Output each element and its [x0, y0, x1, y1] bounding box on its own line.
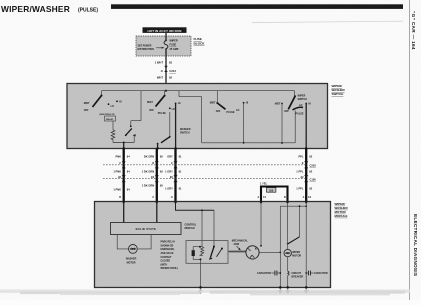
- scan noise overlay: [0, 0, 1, 1]
- labels wire colors row 3: [113, 184, 312, 192]
- wire from header into fuse: [165, 33, 167, 41]
- wiper motor M2: [284, 244, 301, 258]
- washer motor M1: [117, 235, 151, 265]
- wire PNK 94 harness run: [123, 149, 125, 203]
- label FUSE BLOCK: [194, 37, 206, 45]
- switch pole D wiper switch: [275, 91, 311, 116]
- header HOT IN ACCY OR RUN: [143, 27, 187, 33]
- fuse block box (dashed): [136, 36, 191, 56]
- wire exit PNK inside box: [123, 143, 125, 149]
- label WIPER/WASHER SWITCH: [332, 84, 346, 96]
- wire DK GRN inside box: [157, 144, 159, 149]
- mechanical arm linkage: [228, 250, 246, 252]
- wire DK GRN 95 harness run: [156, 149, 158, 203]
- yel jumper leg to motor: [287, 202, 289, 243]
- wire DK GRN into solid state: [156, 202, 158, 222]
- top black bar: [111, 4, 403, 9]
- delay label and box: [100, 114, 116, 121]
- ground G1: [198, 286, 202, 293]
- washer switch: [157, 112, 191, 145]
- connector pins at C203: [120, 161, 309, 168]
- labels wire colors row 1: [116, 154, 313, 158]
- pole D interconnects: [281, 104, 295, 144]
- right margin rule: [409, 0, 411, 300]
- park contact switch of pole A: [125, 91, 141, 143]
- dashed connector row C100: [103, 178, 316, 182]
- capacitor left: [257, 271, 281, 276]
- top interconnect in module: [280, 205, 307, 287]
- label SEE POWER DISTRIBUTION: [138, 45, 165, 51]
- capacitor right: [305, 271, 328, 276]
- ground G2: [278, 286, 282, 293]
- cam to capacitor node wire: [259, 252, 281, 254]
- fuse WIPER FUSE 25 AMP: [164, 40, 179, 51]
- delay resistor: [111, 121, 115, 143]
- feed junction node: [165, 90, 167, 92]
- park switch arm above motor: [287, 237, 300, 245]
- wiper/washer motor module box: [95, 202, 331, 288]
- labels wire colors row 2: [113, 170, 312, 174]
- label WIPER/WASHER MOTOR MODULE: [335, 202, 349, 218]
- label WHT 92: [157, 76, 173, 80]
- title WIPER/WASHER (PULSE): [1, 4, 98, 14]
- module entry nodes: [123, 201, 308, 203]
- switch pole B mist/off/pulse: [147, 91, 181, 116]
- bottom page scan band: [0, 290, 410, 296]
- wire WHT 92 fuse to switch: [165, 49, 167, 84]
- label CONTROL MODULE: [185, 224, 197, 231]
- relay ground wire: [200, 259, 202, 287]
- ground G3: [286, 286, 290, 293]
- wiper/washer switch box: [67, 84, 328, 149]
- dashed connector row C203: [103, 164, 316, 168]
- wire PNK into solid state: [123, 202, 125, 222]
- wire GRY to park relay: [176, 202, 215, 246]
- connector C213: [160, 66, 176, 73]
- wire GRY from pole B HI down: [175, 103, 177, 148]
- switch pole C mist/off/pulse/lo: [210, 91, 249, 114]
- wire bottom interconnect of pole A: [113, 142, 134, 144]
- switch pole A mist/off/delay: [84, 91, 122, 113]
- park relay K1: [186, 241, 228, 264]
- ground G4: [304, 286, 308, 293]
- connector pins at C100: [118, 175, 308, 182]
- wire PPL 92 harness run: [305, 149, 307, 203]
- wire PPL inside box: [305, 104, 307, 149]
- solid state module: [111, 223, 182, 235]
- note text park relay operation: [161, 241, 179, 271]
- wire PPL down right side of module: [305, 202, 307, 287]
- switch box exit nodes: [123, 147, 308, 149]
- resistor jumper 1 YEL 100 ohm: [260, 182, 288, 202]
- mechanical arm label: [232, 240, 249, 251]
- terminal letters at motor module: [119, 196, 311, 199]
- wire GRY 91 harness run: [174, 149, 176, 203]
- circuit breaker: [288, 257, 304, 288]
- park cam: [246, 246, 259, 259]
- page edge artifact line: [252, 21, 403, 22]
- yel jumper leg to cam contact: [260, 202, 262, 246]
- bus wire inside switch: [102, 90, 295, 92]
- interconnect wires right half: [179, 91, 295, 144]
- label 1 WHT 92: [155, 60, 173, 64]
